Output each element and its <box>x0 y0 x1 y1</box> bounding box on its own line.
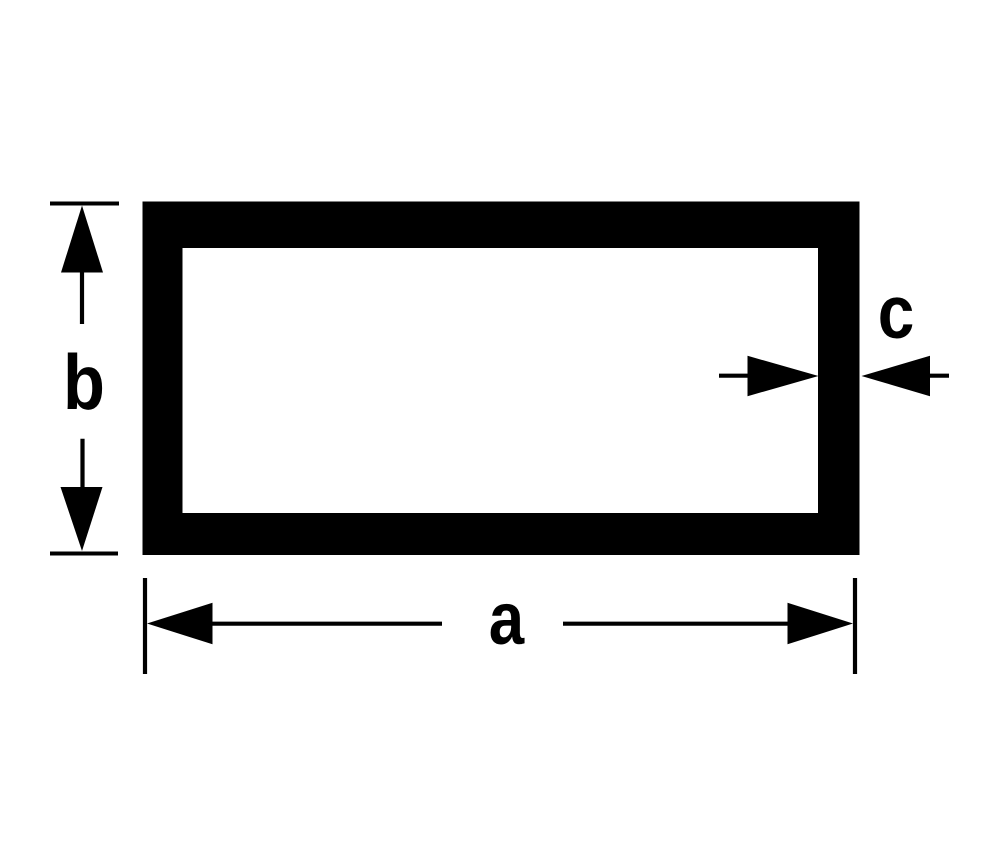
svg-text:b: b <box>63 338 105 426</box>
svg-text:a: a <box>489 578 525 661</box>
svg-text:c: c <box>878 270 915 354</box>
